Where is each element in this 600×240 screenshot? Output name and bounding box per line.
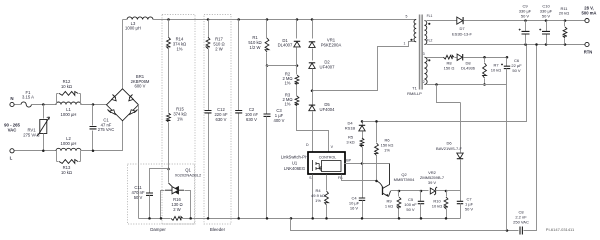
wire fuse to node [32,103,57,106]
wire N-terminal to fuse [15,104,21,106]
svg-text:630 V: 630 V [246,117,257,122]
capacitor C4 [349,164,365,219]
terminal RTN [584,42,593,54]
sense wire to RTN [363,45,527,122]
label 90-265 VAC [4,123,20,133]
svg-text:1000 µH: 1000 µH [61,112,77,117]
wire L1 to bridge [81,103,107,106]
svg-text:1: 1 [404,41,406,45]
svg-text:MMBT3904: MMBT3904 [394,177,415,182]
svg-text:DL4936: DL4936 [461,65,476,70]
svg-text:400 V: 400 V [274,118,285,123]
svg-text:10 kΩ: 10 kΩ [491,67,502,72]
svg-text:1000 µH: 1000 µH [125,26,141,31]
capacitor C7 [457,191,474,219]
capacitor C10 [539,4,553,45]
svg-text:RS1B: RS1B [345,125,356,130]
inductor L3 [123,17,153,31]
FB pin wire [342,175,377,181]
svg-text:3.15 A: 3.15 A [22,95,34,100]
resistor R1 [248,20,269,53]
svg-text:VAC: VAC [8,127,17,132]
TVS diode VR1 [309,20,342,61]
terminal L [10,149,14,161]
resistor R6 [375,120,394,182]
wire R14 to R15 [168,49,170,113]
wire bridge top to top bus [122,20,124,89]
svg-text:250 VAC: 250 VAC [513,219,529,224]
svg-text:D: D [306,143,309,147]
svg-text:RM8-LP: RM8-LP [407,91,422,96]
svg-text:FL2: FL2 [427,39,433,43]
svg-text:1%: 1% [177,116,183,121]
BP pin wire [345,162,390,165]
svg-text:10 kΩ: 10 kΩ [61,170,72,175]
wire bridge right down to ground rail [138,105,140,219]
dashed box (R14/R15 column) [162,15,195,225]
fuse F1 [21,90,34,107]
svg-text:PI-6147-031411: PI-6147-031411 [546,227,575,232]
capacitor C11 [131,169,168,219]
output terminal 28V [582,6,597,23]
svg-text:T1: T1 [412,85,417,90]
diode D5 [309,91,335,153]
svg-text:1000 µH: 1000 µH [61,141,77,146]
T1 bias winding [423,52,431,84]
transistor Q2 [377,164,416,197]
primary ground rail [139,217,461,220]
diode D4 [345,120,365,131]
svg-text:2 W: 2 W [215,46,222,51]
resistor R17 [206,20,225,52]
svg-text:2: 2 [423,80,425,84]
svg-text:500 mA: 500 mA [582,11,597,16]
zener VR2 [420,170,461,195]
svg-text:10 kΩ: 10 kΩ [432,203,443,208]
resistor R13 parallel loop [57,151,81,175]
svg-text:1%: 1% [176,46,182,51]
bias top wire [427,57,444,59]
wire L2 to bridge bottom [81,121,123,153]
capacitor C3 [264,66,285,219]
resistor R9 [385,191,401,219]
bias to D6 wire [437,85,461,103]
svg-text:ES3D-13-F: ES3D-13-F [452,31,473,36]
svg-text:16 V: 16 V [350,205,359,210]
svg-text:3: 3 [423,52,425,56]
transformer T1 core [419,15,423,90]
capacitor C6 [501,58,522,85]
svg-text:U1: U1 [292,160,298,165]
top bus wire [153,18,416,21]
T1 primary winding [404,14,417,45]
resistor R4 [311,188,328,219]
diode D7 [452,17,585,36]
wire R15 to damper node [167,123,170,171]
svg-text:50 V: 50 V [134,195,143,200]
dashed box Bleeder [204,15,231,233]
schematic id PI-6147-031411 [546,227,575,232]
wire clamp to primary pin1 [313,42,416,91]
resistor R7 [483,58,502,86]
wire R1 to node [266,53,299,67]
S pin wire [312,175,314,219]
svg-text:FB: FB [338,176,343,180]
varistor RV1 [23,105,49,151]
triac Q1 [161,168,203,219]
svg-text:275 VAC: 275 VAC [23,132,39,137]
svg-text:DL4007: DL4007 [278,43,293,48]
svg-text:1%: 1% [315,198,321,203]
svg-text:RTN: RTN [584,50,593,55]
bias return rail [427,83,507,86]
capacitor C5 [404,191,424,219]
T1 secondary winding FL1-FL2 [424,14,432,44]
resistor R3 [282,85,298,107]
resistor R16 inline in ground rail [171,197,183,220]
svg-text:2 W: 2 W [173,207,180,212]
svg-text:X0202NA2BL2: X0202NA2BL2 [175,173,202,178]
svg-text:1%: 1% [384,147,390,152]
bridge rectifier BR1 [107,74,150,121]
svg-text:Bleeder: Bleeder [210,227,226,232]
capacitor C9 [519,4,532,45]
diode D6 [436,103,463,191]
RTN rail [427,43,585,46]
svg-text:FL1: FL1 [427,14,433,18]
capacitor C1 [90,105,115,151]
secondary top wire [427,20,457,22]
capacitor C12 [205,49,228,219]
resistor R2 [282,66,298,86]
svg-text:Damper: Damper [150,227,166,232]
svg-text:3 kΩ: 3 kΩ [346,139,354,144]
diode D1 [278,20,301,66]
terminal N [10,96,14,107]
resistor R8 [444,55,455,70]
svg-text:LNK406EG: LNK406EG [284,166,305,171]
svg-text:BP: BP [346,159,351,163]
svg-text:UF4004: UF4004 [320,107,336,112]
svg-text:L: L [10,156,13,161]
capacitor C2 [235,20,258,219]
svg-text:10 kΩ: 10 kΩ [61,84,72,89]
svg-text:LinkSwitch-PH: LinkSwitch-PH [281,155,308,160]
svg-text:1 kΩ: 1 kΩ [385,203,393,208]
svg-text:UF4007: UF4007 [320,64,336,69]
svg-text:CONTROL: CONTROL [319,155,337,159]
svg-text:20 kΩ: 20 kΩ [559,11,570,16]
wire L-terminal to L2 [15,150,57,153]
svg-text:BAV21WS-7-F: BAV21WS-7-F [436,146,462,151]
svg-text:P6KE200A: P6KE200A [321,42,342,47]
svg-text:275 VAC: 275 VAC [98,127,114,132]
svg-text:50 V: 50 V [465,206,474,211]
bias ground drop [506,85,508,231]
wire R3 to V pin [297,107,329,153]
bottom jumper wire [291,219,519,232]
diode D8 [455,54,509,70]
resistor R11 [559,6,570,45]
svg-text:50 V: 50 V [542,13,551,18]
T1 label [407,85,422,96]
svg-text:150 Ω: 150 Ω [444,65,455,70]
svg-text:50 V: 50 V [512,68,521,73]
svg-text:630 V: 630 V [216,117,227,122]
svg-text:600 V: 600 V [135,84,146,89]
resistor R5 [346,132,364,164]
svg-text:50 V: 50 V [406,207,415,212]
svg-text:1/2 W: 1/2 W [250,45,261,50]
Y-capacitor C8 [513,45,536,235]
inductor L1 [56,102,81,117]
resistor R10 [432,191,448,219]
svg-text:N: N [10,96,13,101]
svg-text:39 V: 39 V [428,180,437,185]
resistor R15 [167,107,187,123]
svg-text:1%: 1% [284,102,290,107]
inductor L2 [56,136,81,151]
resistor R12 parallel loop [57,79,81,105]
svg-text:50 V: 50 V [521,13,530,18]
R pin wire [326,175,328,191]
svg-text:1%: 1% [284,81,290,86]
svg-text:5: 5 [406,14,408,18]
IC U1 LNK406EG [281,143,352,180]
dashed box Damper [128,164,195,232]
diode D2 [309,60,335,93]
zener rail [391,190,429,193]
resistor R14 [167,20,187,52]
